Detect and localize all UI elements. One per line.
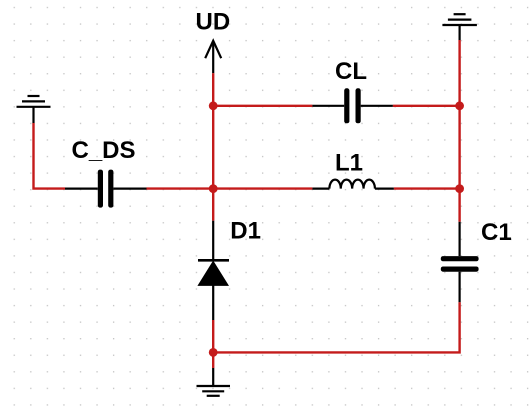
node C junction dot: [455, 101, 464, 110]
wire C1 to node E (bottom): [213, 302, 459, 352]
wire UD stem to node A: [212, 73, 214, 106]
svg-text:D1: D1: [230, 218, 261, 245]
svg-text:UD: UD: [196, 9, 231, 36]
wire node C to node D (right rail): [458, 106, 460, 189]
ground G2 (top right): [442, 14, 477, 40]
wire L1 to node D: [394, 187, 460, 189]
wire G1 to C_DS (left rail): [34, 123, 66, 189]
wire G2 to node C (right rail top): [458, 40, 460, 106]
wire CL to node C: [393, 105, 460, 107]
wire C_DS to node B: [147, 187, 214, 189]
node E junction dot: [209, 348, 218, 357]
svg-text:C1: C1: [481, 219, 512, 246]
wire node B to D1: [212, 189, 214, 221]
svg-text:C_DS: C_DS: [72, 137, 136, 164]
wire node A to CL: [213, 105, 312, 107]
wire node E to ground G3: [212, 352, 214, 368]
power arrow UD: [205, 41, 221, 73]
ground G3 (bottom): [197, 368, 231, 396]
wire D1 to node E: [212, 320, 214, 352]
svg-text:CL: CL: [335, 58, 367, 85]
wire node D to C1: [458, 189, 460, 222]
capacitor C1: [441, 222, 479, 302]
capacitor CL: [312, 88, 393, 123]
wire node B to L1: [213, 187, 312, 189]
wire node A to node B (center rail): [212, 106, 214, 189]
ground G1 (top left): [17, 96, 51, 123]
node B junction dot: [209, 184, 218, 193]
svg-text:L1: L1: [335, 149, 363, 176]
capacitor C_DS: [65, 170, 147, 208]
diode D1: [198, 221, 229, 320]
node A junction dot: [209, 101, 218, 110]
inductor L1: [312, 180, 394, 189]
node D junction dot: [455, 184, 464, 193]
